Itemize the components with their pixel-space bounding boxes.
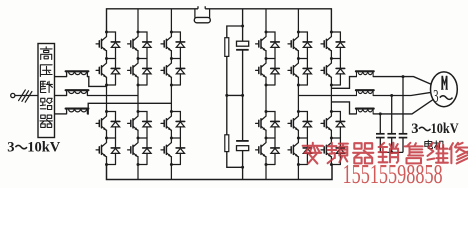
- node leg D bottom node: [265, 163, 268, 166]
- label 电机: [425, 140, 433, 148]
- fuse / drawout link on DC bus: [195, 9, 210, 18]
- wire C2 to bottom DC rail: [242, 151, 244, 180]
- IGBT QD3 with antiparallel diode DD3: [256, 110, 280, 138]
- wire leg A node stub: [107, 84, 116, 86]
- wire leg F node stub: [331, 84, 340, 86]
- node leg F bottom node: [330, 163, 333, 166]
- IGBT QF3 with antiparallel diode DF3: [321, 110, 345, 138]
- IGBT QA1 with antiparallel diode DA1: [96, 31, 120, 59]
- svg-text:3: 3: [411, 121, 418, 137]
- balancing resistor R1: [225, 38, 229, 57]
- IGBT QE1 with antiparallel diode DE1: [288, 31, 312, 59]
- output reactor L4: [356, 71, 374, 76]
- IGBT QC3 with antiparallel diode DC3: [161, 110, 185, 138]
- input terminal: [11, 93, 15, 97]
- wire box to reactor L3: [55, 113, 67, 115]
- svg-text:3: 3: [7, 139, 14, 155]
- IGBT QF4 with antiparallel diode DF4: [321, 137, 345, 165]
- wire phase U to motor: [403, 77, 431, 85]
- IGBT QB2 with antiparallel diode DB2: [128, 57, 152, 85]
- three-phase slash marks: [19, 90, 32, 102]
- output reactor L6: [356, 109, 374, 114]
- wire phase V to motor: [392, 92, 431, 95]
- wire midpoint to C2: [242, 95, 244, 140]
- wire leg E drop to bottom rail: [297, 165, 299, 180]
- wire leg B phase midpoint segment: [137, 85, 139, 112]
- wire fuse gap ticks: [198, 6, 205, 9]
- wire top rail drop to leg B: [137, 9, 139, 32]
- balancing resistor R2: [225, 135, 229, 152]
- wire leg F bottom node stub: [331, 164, 340, 166]
- node leg E upper-pair emitter node: [297, 84, 300, 87]
- line reactor L2: [66, 90, 89, 95]
- wire leg A phase midpoint segment: [106, 85, 108, 112]
- svg-text:10kV: 10kV: [431, 120, 459, 136]
- IGBT QC1 with antiparallel diode DC1: [161, 31, 185, 59]
- red watermark text 变频器销售维修: [303, 143, 468, 164]
- svg-text:10kV: 10kV: [27, 139, 61, 155]
- wire reactor L3 to rectifier leg C midpoint: [87, 103, 171, 114]
- IGBT QC4 with antiparallel diode DC4: [161, 137, 185, 165]
- node leg A upper-pair emitter node: [105, 84, 108, 87]
- filter capacitor C4: [387, 134, 396, 138]
- wire leg D node stub: [266, 84, 275, 86]
- wire inverter leg E to reactor L5: [298, 95, 356, 97]
- IGBT QD1 with antiparallel diode DD1: [256, 31, 280, 59]
- wire leg B bottom node stub: [138, 164, 147, 166]
- IGBT QF2 with antiparallel diode DF2: [321, 57, 345, 85]
- IGBT QA2 with antiparallel diode DA2: [96, 57, 120, 85]
- node phase U filter tap: [402, 75, 405, 78]
- node link branch bottom junction: [241, 166, 244, 169]
- wire cap C3 to star point: [379, 138, 381, 153]
- node filter star point: [390, 151, 393, 154]
- wire to balancing resistor R1: [227, 26, 243, 38]
- IGBT QE2 with antiparallel diode DE2: [288, 57, 312, 85]
- wire box to reactor L1: [55, 76, 67, 78]
- wire leg D drop to bottom rail: [265, 165, 267, 180]
- IGBT QE3 with antiparallel diode DE3: [288, 110, 312, 138]
- wire reactor L4 to phase U run: [373, 76, 403, 78]
- node leg A bottom node: [105, 163, 108, 166]
- line reactor L3: [66, 109, 89, 114]
- wire leg C drop to bottom rail: [170, 165, 172, 180]
- wire input terminal to breaker box: [15, 95, 38, 97]
- wire leg C node stub: [171, 84, 180, 86]
- wire phase U drop to filter cap C5: [402, 77, 404, 134]
- wire phase V drop to filter cap C4: [391, 96, 393, 134]
- wire box to reactor L2: [55, 95, 67, 97]
- wire to capacitor C1: [242, 26, 244, 41]
- node leg F upper-pair emitter node: [330, 84, 333, 87]
- IGBT QC2 with antiparallel diode DC2: [161, 57, 185, 85]
- wire midpoint tie: [227, 94, 243, 96]
- wire leg C bottom node stub: [171, 164, 180, 166]
- box label: 高压断路器 (vertical): [40, 47, 52, 60]
- filter capacitor C5: [399, 134, 408, 138]
- wire leg B drop to bottom rail: [137, 165, 139, 180]
- node leg B upper-pair emitter node: [137, 84, 140, 87]
- node leg B bottom node: [137, 163, 140, 166]
- wire R2 to bottom junction: [227, 152, 243, 168]
- wire leg B node stub: [138, 84, 147, 86]
- wire cap C5 to star point: [402, 138, 404, 153]
- line reactor L1: [66, 71, 89, 76]
- wire top DC rail (left part, up from leg A): [107, 9, 199, 32]
- wire C1 to midpoint: [242, 50, 244, 96]
- node phase V filter tap: [390, 94, 393, 97]
- wire phase W drop to filter cap C3: [379, 114, 381, 134]
- wire top rail drop to leg C: [170, 9, 172, 32]
- high-voltage circuit breaker box: [38, 44, 55, 138]
- wire reactor L1 to rectifier leg A midpoint: [87, 77, 106, 87]
- wire cap C4 to star point: [391, 138, 393, 153]
- IGBT QA3 with antiparallel diode DA3: [96, 110, 120, 138]
- wire phase W to motor: [380, 100, 433, 114]
- wire top rail drop to leg D: [265, 9, 267, 32]
- IGBT QB1 with antiparallel diode DB1: [128, 31, 152, 59]
- wire midpoint to R2: [226, 95, 228, 134]
- wire leg E phase midpoint segment: [297, 85, 299, 112]
- wire top DC rail (right part, down to leg F): [205, 9, 331, 32]
- wire reactor L6 to phase W run: [373, 113, 380, 115]
- svg-text:3: 3: [433, 87, 438, 106]
- output reactor L5: [356, 90, 374, 95]
- wire inverter leg F lower tap to reactor L6: [331, 102, 356, 114]
- wire leg A bottom node stub: [107, 164, 116, 166]
- node phase W filter tap: [379, 112, 382, 115]
- node link branch top: [241, 25, 244, 28]
- wire top rail drop to leg E: [297, 9, 299, 32]
- wire leg D phase midpoint segment: [265, 85, 267, 112]
- wire R1 to midpoint: [226, 56, 228, 95]
- wire leg F phase midpoint segment: [330, 85, 332, 112]
- IGBT QD2 with antiparallel diode DD2: [256, 57, 280, 85]
- IGBT QD4 with antiparallel diode DD4: [256, 137, 280, 165]
- wire reactor L5 to phase V run: [373, 95, 392, 97]
- svg-text:15515598858: 15515598858: [343, 159, 443, 188]
- wire leg E node stub: [298, 84, 307, 86]
- node resistor string midpoint: [225, 94, 228, 97]
- node leg E bottom node: [297, 163, 300, 166]
- wire leg D bottom node stub: [266, 164, 275, 166]
- node leg C bottom node: [170, 163, 173, 166]
- IGBT QE4 with antiparallel diode DE4: [288, 137, 312, 165]
- wire filter star tie: [380, 151, 403, 153]
- IGBT QB4 with antiparallel diode DB4: [128, 137, 152, 165]
- wire DC+ rail to link branch: [242, 9, 244, 26]
- wire inverter leg F to reactor L4: [331, 77, 356, 89]
- IGBT QF1 with antiparallel diode DF1: [321, 31, 345, 59]
- node leg C upper-pair emitter node: [170, 84, 173, 87]
- wire reactor L2 to rectifier leg B midpoint: [87, 95, 138, 97]
- wire leg C phase midpoint segment: [170, 85, 172, 112]
- wire leg E bottom node stub: [298, 164, 307, 166]
- IGBT QB3 with antiparallel diode DB3: [128, 110, 152, 138]
- filter capacitor C3: [376, 134, 385, 138]
- wire bottom DC rail: [107, 165, 333, 180]
- IGBT QA4 with antiparallel diode DA4: [96, 137, 120, 165]
- node leg D upper-pair emitter node: [265, 84, 268, 87]
- motor M (3-phase): [431, 72, 458, 107]
- node capacitor string midpoint: [241, 94, 244, 97]
